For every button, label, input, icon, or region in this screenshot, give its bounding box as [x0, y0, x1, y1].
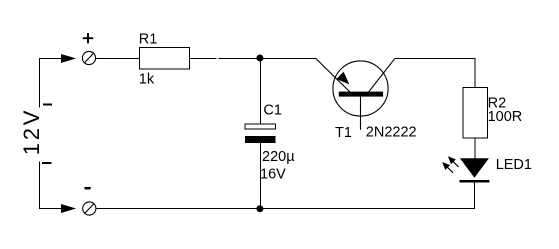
LED emission arrow lower: [442, 162, 453, 173]
svg-text:T1: T1: [335, 125, 352, 141]
wire: left vertical lower segment and bottom-left stub: [40, 161, 62, 208]
supply gap tick bottom: [42, 162, 52, 164]
node A (junction dot top): [256, 55, 263, 62]
minus sign: [85, 187, 91, 190]
base bar: [339, 92, 383, 97]
svg-text:1k: 1k: [139, 71, 155, 87]
wire: R2 down to LED: [474, 138, 476, 159]
wire: + terminal to R1: [96, 58, 140, 60]
svg-text:LED1: LED1: [496, 157, 532, 173]
LED emission arrow upper: [448, 156, 459, 167]
terminal - (negative input): [83, 202, 96, 215]
terminal + (positive input): [82, 51, 95, 64]
capacitor C1 bottom plate: [245, 136, 276, 143]
svg-text:R1: R1: [139, 31, 158, 47]
supply gap tick top: [43, 104, 52, 106]
wire: top-left stub and left vertical upper segment: [40, 59, 62, 108]
LED LED1 triangle: [460, 158, 489, 178]
capacitor C1 top plate: [245, 124, 276, 129]
transistor body circle: [333, 61, 388, 116]
arrow into positive terminal: [61, 54, 76, 63]
emitter lead diagonal: [315, 58, 350, 93]
svg-text:220µ: 220µ: [262, 149, 295, 165]
svg-text:16V: 16V: [260, 167, 286, 183]
collector lead diagonal: [369, 58, 395, 92]
resistor R1: [140, 48, 190, 70]
plus sign: [83, 33, 93, 43]
arrow into negative terminal: [61, 204, 76, 213]
base lead: [360, 97, 362, 130]
node B (junction dot bottom): [256, 205, 263, 212]
wire: LED down to bottom rail: [474, 183, 476, 209]
svg-text:12V: 12V: [19, 108, 44, 156]
resistor R2: [463, 88, 487, 139]
wire: C1 down to bottom rail: [260, 143, 262, 209]
emitter arrowhead: [336, 72, 349, 85]
svg-text:2N2222: 2N2222: [366, 125, 417, 141]
wire: collector to top-right corner and down to R2: [395, 59, 475, 88]
svg-text:C1: C1: [263, 102, 282, 118]
wire: gap to transistor branch: [218, 58, 315, 60]
transistor T1: [315, 58, 395, 130]
wire: R1 to gap: [190, 58, 217, 60]
wire: junction down to C1: [260, 58, 262, 125]
LED cathode bar: [460, 180, 490, 183]
wire: bottom rail: [96, 208, 475, 210]
svg-text:100R: 100R: [488, 109, 523, 125]
